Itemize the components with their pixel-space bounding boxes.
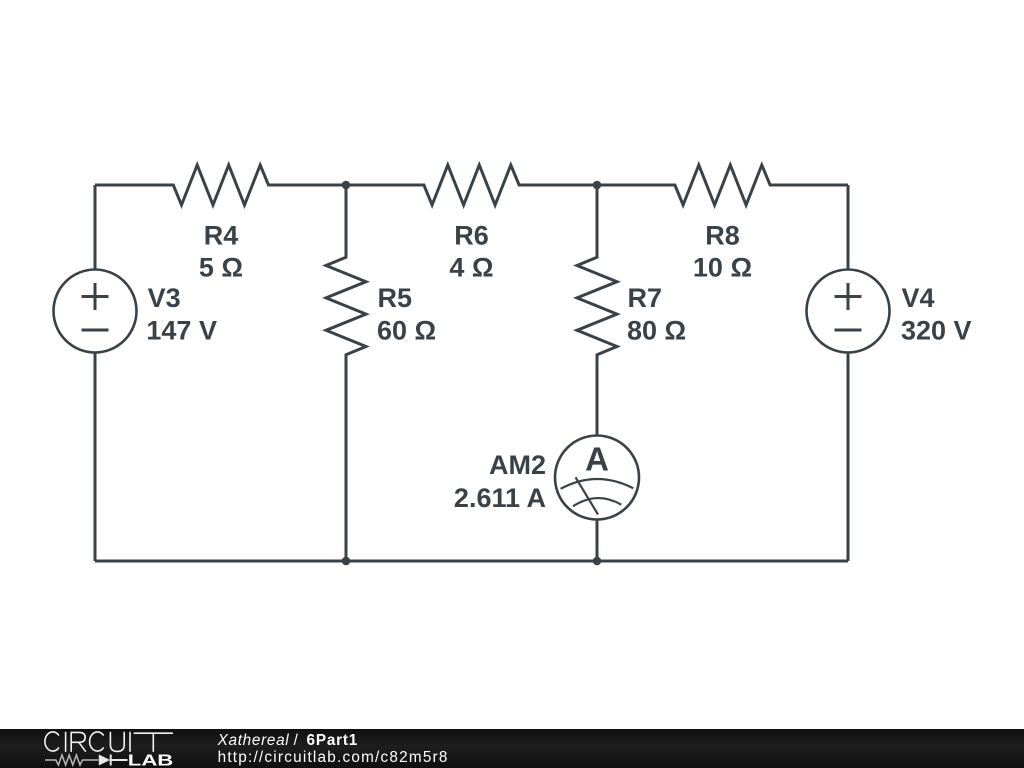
svg-text:AM2: AM2 xyxy=(489,450,546,480)
svg-text:V4: V4 xyxy=(902,283,935,313)
logo diode bar and wire xyxy=(111,755,128,766)
svg-text:R7: R7 xyxy=(628,283,663,313)
svg-text:60 Ω: 60 Ω xyxy=(377,316,436,346)
svg-text:Xathereal: Xathereal xyxy=(217,732,290,749)
svg-text:R4: R4 xyxy=(204,220,239,250)
wire left vertical bottom xyxy=(94,353,97,562)
wire bottom horizontal xyxy=(95,560,848,563)
resistor R5 xyxy=(326,185,366,561)
svg-text:/: / xyxy=(294,732,299,749)
logo CIRCUIT letters xyxy=(45,732,172,751)
wire right vertical top xyxy=(847,185,850,270)
voltage source V3 xyxy=(54,270,137,353)
voltage source V4 xyxy=(807,270,890,353)
svg-text:R6: R6 xyxy=(454,220,489,250)
svg-text:80 Ω: 80 Ω xyxy=(627,316,686,346)
svg-text:A: A xyxy=(585,440,609,477)
svg-text:5 Ω: 5 Ω xyxy=(199,253,243,283)
resistor R4 xyxy=(95,165,346,205)
node bottom-left junction xyxy=(342,557,351,566)
logo diode xyxy=(99,755,110,766)
wire left vertical top xyxy=(94,185,97,270)
svg-text:4 Ω: 4 Ω xyxy=(449,253,493,283)
wire right vertical bottom xyxy=(847,353,850,562)
svg-text:320 V: 320 V xyxy=(901,316,972,346)
node top-left junction xyxy=(342,181,351,190)
logo schematic wire with resistor xyxy=(45,755,99,765)
ammeter AM2 xyxy=(555,436,639,520)
svg-text:10 Ω: 10 Ω xyxy=(693,253,752,283)
resistor R6 xyxy=(346,165,597,205)
svg-text:2.611 A: 2.611 A xyxy=(454,483,546,513)
svg-text:V3: V3 xyxy=(148,283,181,313)
footer bar xyxy=(0,729,1024,768)
svg-text:R5: R5 xyxy=(378,283,413,313)
svg-text:R8: R8 xyxy=(705,220,740,250)
svg-text:http://circuitlab.com/c82m5r8: http://circuitlab.com/c82m5r8 xyxy=(218,749,448,766)
svg-text:LAB: LAB xyxy=(128,752,174,768)
svg-text:6Part1: 6Part1 xyxy=(307,732,358,749)
node bottom-right junction xyxy=(593,557,602,566)
node top-right junction xyxy=(593,181,602,190)
wire ammeter bottom xyxy=(596,520,599,562)
svg-text:147 V: 147 V xyxy=(146,316,217,346)
resistor R7 xyxy=(577,185,617,436)
resistor R8 xyxy=(597,165,848,205)
